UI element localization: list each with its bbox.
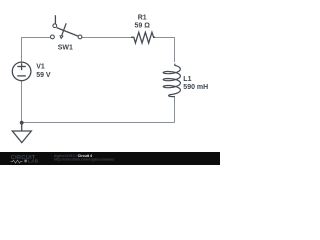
svg-text:R1: R1	[138, 14, 147, 21]
svg-text:59 Ω: 59 Ω	[135, 23, 151, 30]
svg-text:590 mH: 590 mH	[183, 84, 208, 91]
wire resistor to top-right corner	[155, 37, 175, 39]
wire right vertical lower (from L1)	[174, 96, 176, 123]
resistor R1	[131, 32, 155, 43]
watermark logo zigzag	[11, 160, 23, 163]
watermark bar	[0, 152, 220, 165]
watermark logo LAB	[25, 160, 27, 163]
svg-text:L1: L1	[183, 76, 191, 83]
wire V1 bottom lead	[21, 81, 23, 123]
wire bottom horizontal	[22, 122, 175, 124]
wire left vertical (V1 top lead)	[21, 38, 23, 63]
junction ground node	[20, 121, 24, 125]
wire top-left horizontal segment	[21, 37, 51, 39]
svg-text:V1: V1	[36, 64, 45, 71]
wire switch to resistor	[82, 37, 131, 39]
inductor L1	[163, 64, 180, 97]
wire right vertical upper (into L1)	[174, 38, 176, 63]
svg-text:http://circuitlab.com/c/gateus: http://circuitlab.com/c/gateusaarlau	[54, 158, 115, 162]
switch SW1	[51, 15, 82, 39]
voltage source V1	[12, 62, 31, 81]
ground	[12, 123, 31, 143]
svg-text:LAB: LAB	[28, 159, 39, 164]
svg-text:59 V: 59 V	[36, 72, 51, 79]
svg-text:SW1: SW1	[58, 45, 73, 52]
